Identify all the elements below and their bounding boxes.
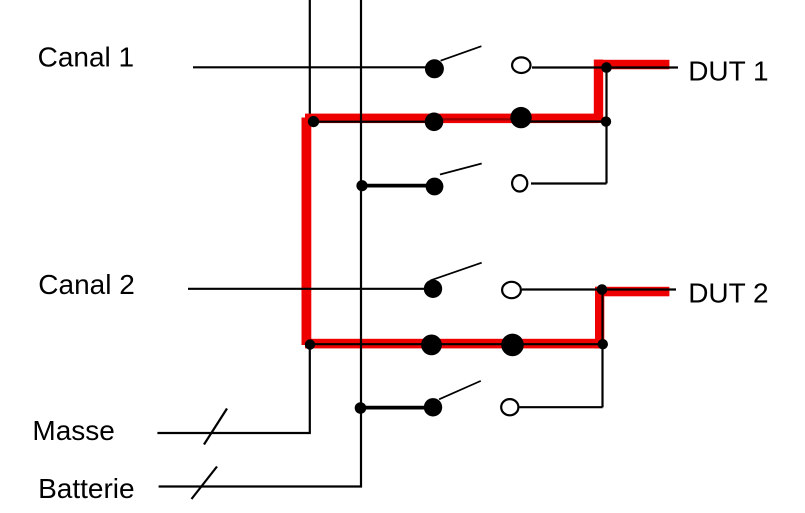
svg-text:Canal 1: Canal 1 xyxy=(38,41,135,72)
svg-text:Batterie: Batterie xyxy=(38,473,135,504)
svg-text:DUT 2: DUT 2 xyxy=(688,278,768,309)
svg-text:Canal 2: Canal 2 xyxy=(38,269,135,300)
svg-text:DUT 1: DUT 1 xyxy=(688,56,768,87)
svg-text:Masse: Masse xyxy=(32,415,114,446)
